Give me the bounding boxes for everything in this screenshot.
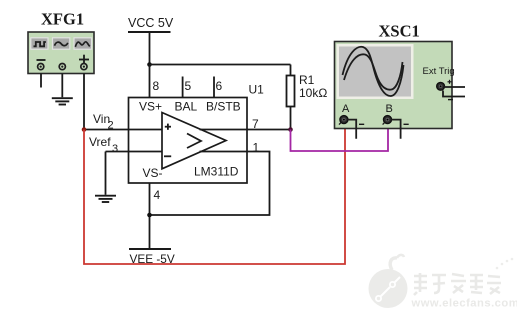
XFG1 terminal common	[59, 64, 65, 70]
wire R1 bottom lead	[290, 107, 292, 130]
channel B minus mark	[404, 123, 409, 125]
scope trace wave 1	[343, 47, 404, 96]
svg-text:XFG1: XFG1	[41, 10, 84, 29]
svg-text:7: 7	[252, 117, 259, 131]
op-amp U1 triangle	[162, 113, 226, 169]
wire R1 top lead	[290, 65, 292, 76]
pin 6 stub	[213, 77, 215, 98]
svg-text:4: 4	[154, 188, 161, 202]
wire pin 7 output	[200, 129, 291, 131]
svg-text:Vref: Vref	[89, 135, 111, 149]
wire purple output to scope B	[291, 121, 389, 151]
svg-text:1: 1	[253, 141, 260, 155]
XSC1 screen	[337, 44, 414, 99]
watermark dots	[496, 258, 514, 270]
XFG1 minus terminal mark	[37, 59, 46, 61]
svg-text:3: 3	[112, 143, 118, 155]
channel B terminal	[383, 116, 392, 125]
svg-text:R1: R1	[299, 73, 315, 87]
Ext Trig plus mark	[448, 80, 452, 84]
junction pin4 node	[147, 213, 152, 218]
wire VCC down	[149, 32, 151, 65]
wire VCC to R1	[150, 64, 291, 66]
wire node Vin to pin 2	[84, 129, 162, 131]
svg-text:VS-: VS-	[143, 166, 163, 180]
wire XFG1 plus to node Vin	[83, 74, 85, 130]
svg-text:XSC1: XSC1	[379, 22, 420, 41]
svg-text:B: B	[386, 103, 393, 115]
op-amp plus input mark	[165, 124, 171, 130]
svg-text:LM311D: LM311D	[194, 165, 239, 179]
label R1 10kOhm	[299, 73, 327, 100]
resistor R1	[287, 76, 295, 107]
ground (XFG1 common)	[52, 98, 73, 104]
ground (Vref)	[95, 196, 116, 202]
XFG1 terminal minus	[38, 64, 44, 70]
svg-text:A: A	[342, 103, 350, 115]
wire Ext Trig minus stub	[443, 91, 465, 97]
watermark logo	[369, 255, 408, 308]
wire Vref to ground	[105, 152, 107, 195]
svg-text:6: 6	[216, 79, 223, 93]
wire VCC to pin 8	[149, 65, 151, 98]
junction output node (dark)	[288, 127, 293, 132]
power VEE bar	[129, 248, 171, 250]
svg-text:10kΩ: 10kΩ	[299, 86, 327, 100]
svg-text:U1: U1	[249, 83, 265, 97]
svg-text:5: 5	[185, 79, 192, 93]
wire XFG1 minus stub	[40, 74, 42, 88]
wire node Vref to pin 3	[106, 151, 163, 153]
XFG1 square-wave button	[31, 38, 48, 49]
pin 5 stub	[182, 77, 184, 98]
svg-text:VS+: VS+	[139, 100, 162, 114]
wire pin 1 to pin 4 net	[150, 152, 270, 216]
channel A minus mark	[359, 123, 364, 125]
power VCC bar	[128, 31, 171, 33]
svg-text:BAL: BAL	[175, 100, 198, 114]
watermark chinese glyphs	[414, 273, 501, 295]
svg-text:2: 2	[108, 120, 114, 132]
svg-text:Ext Trig: Ext Trig	[423, 66, 455, 77]
Ext Trig terminal	[437, 82, 445, 90]
Ext Trig minus mark	[448, 99, 453, 101]
channel A terminal	[339, 116, 348, 125]
XFG1 sine button	[53, 38, 70, 49]
channel A minus stub	[348, 120, 357, 139]
op-amp U1 package box	[129, 98, 248, 184]
XFG1 plus terminal mark	[79, 55, 89, 65]
function generator XFG1 body	[28, 32, 94, 74]
junction node Vin (red)	[82, 127, 87, 132]
junction VCC node	[147, 62, 152, 67]
comparator chevron mark	[187, 134, 201, 149]
wire red Vin to scope A	[84, 121, 345, 264]
wire pin 4 to VEE	[149, 183, 151, 249]
XFG1 triangle button	[74, 38, 92, 49]
svg-text:8: 8	[153, 79, 160, 93]
channel B minus stub	[391, 120, 401, 139]
svg-text:VCC 5V: VCC 5V	[128, 16, 174, 30]
svg-text:www.elecfans.com: www.elecfans.com	[411, 298, 517, 310]
oscilloscope XSC1 body	[335, 42, 453, 129]
wire XFG1 common to ground	[61, 74, 63, 98]
scope trace wave 2	[344, 54, 403, 89]
wire Ext Trig plus stub	[443, 86, 465, 88]
svg-text:B/STB: B/STB	[206, 100, 241, 114]
XFG1 terminal plus	[81, 64, 87, 70]
op-amp minus input mark	[164, 155, 171, 157]
